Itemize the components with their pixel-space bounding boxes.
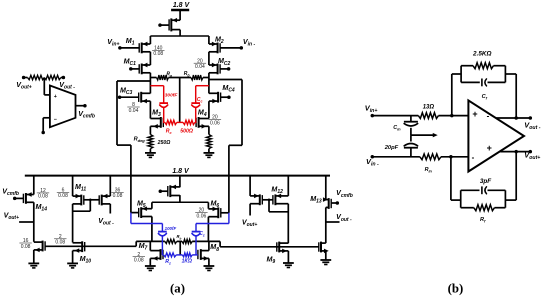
svg-text:+: + — [472, 109, 477, 119]
svg-text:3pF: 3pF — [480, 178, 492, 185]
svg-text:0.04: 0.04 — [129, 108, 139, 114]
svg-text:Rdeg: Rdeg — [134, 136, 146, 143]
svg-text:1.8 V: 1.8 V — [172, 168, 190, 175]
svg-text:0.08: 0.08 — [113, 193, 123, 199]
svg-text:+: + — [487, 143, 492, 153]
svg-text:-: - — [487, 111, 490, 120]
svg-text:1KΩ: 1KΩ — [182, 258, 192, 264]
svg-text:(a): (a) — [170, 282, 185, 296]
svg-text:0.06: 0.06 — [197, 213, 207, 219]
svg-text:0.04: 0.04 — [195, 64, 205, 70]
svg-text:1.8 V: 1.8 V — [173, 2, 191, 9]
svg-text:−: − — [54, 117, 57, 123]
svg-text:0.08: 0.08 — [134, 258, 144, 264]
svg-text:300fF: 300fF — [165, 93, 179, 99]
svg-text:0.08: 0.08 — [58, 193, 68, 199]
svg-text:+: + — [54, 94, 57, 100]
svg-text:0.06: 0.06 — [210, 120, 220, 126]
svg-text:500Ω: 500Ω — [180, 128, 193, 134]
svg-text:0.08: 0.08 — [55, 240, 65, 246]
svg-text:-: - — [472, 153, 475, 162]
svg-text:2.5KΩ: 2.5KΩ — [472, 51, 492, 58]
svg-text:100fF: 100fF — [165, 226, 177, 231]
svg-text:Cf: Cf — [482, 94, 488, 101]
svg-text:Rf: Rf — [480, 217, 486, 224]
svg-text:0.08: 0.08 — [21, 244, 31, 250]
svg-text:20pF: 20pF — [384, 145, 399, 151]
svg-text:0.08: 0.08 — [153, 51, 163, 57]
svg-text:250Ω: 250Ω — [157, 140, 171, 146]
svg-text:0.08: 0.08 — [38, 194, 48, 200]
svg-text:13Ω: 13Ω — [423, 105, 435, 111]
svg-text:(b): (b) — [448, 282, 464, 296]
